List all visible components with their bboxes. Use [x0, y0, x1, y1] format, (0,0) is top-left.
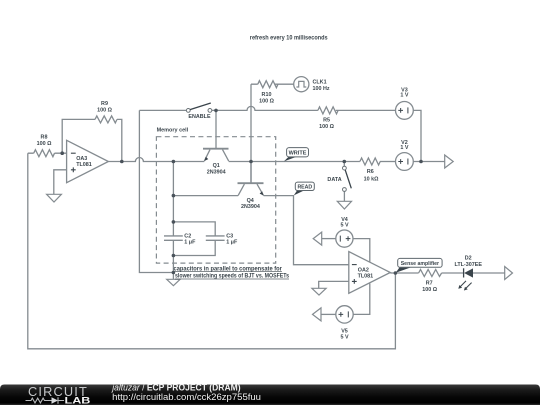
junction OA2 output node [394, 271, 398, 275]
svg-text:R5: R5 [323, 118, 330, 124]
resistor R6 [360, 158, 380, 183]
svg-text:2N3904: 2N3904 [207, 169, 226, 175]
svg-text:10 kΩ: 10 kΩ [364, 177, 379, 183]
svg-text:100 Ω: 100 Ω [422, 287, 437, 293]
wire: OA2 plus to ground [319, 281, 349, 288]
terminal arrow (bus output) [445, 155, 454, 168]
transistor Q1 [203, 110, 229, 175]
ground (bitline caps) [167, 279, 180, 285]
resistor R7 [419, 270, 442, 294]
terminal arrow (LED output) [505, 267, 513, 280]
LED D2 [454, 255, 482, 290]
capacitor C3 [206, 234, 238, 246]
wire: V5 right to OA2 bottom power pin [353, 283, 370, 314]
svg-text:100 Hz: 100 Hz [313, 86, 330, 92]
junction ground wire on bitline rail [172, 271, 176, 275]
svg-text:TL081: TL081 [358, 273, 374, 279]
ground (OA2 +) [312, 288, 326, 295]
clock source CLK1 [294, 77, 330, 93]
svg-text:Sense amplifier: Sense amplifier [401, 261, 439, 267]
svg-text:R9: R9 [101, 101, 108, 107]
ground (OA3 +) [47, 194, 62, 202]
terminal arrow (V4 input) [313, 232, 322, 245]
wire: Q4 right to READ corner down to OA2 minus [264, 196, 349, 265]
wire: main bus Q1 collector to R6 left [229, 161, 360, 163]
wire: main bus OA3 output to Q1 emitter (hop at x=139.4) [108, 158, 204, 162]
switch ENABLE [186, 103, 211, 120]
svg-text:1 V: 1 V [400, 145, 408, 151]
svg-text:100 Ω: 100 Ω [37, 141, 52, 147]
svg-text:LTL-307EE: LTL-307EE [454, 262, 482, 268]
svg-text:capacitors in parallel to comp: capacitors in parallel to compensate for [174, 265, 283, 272]
svg-text:1 μF: 1 μF [226, 240, 238, 246]
wire: switch to R5 (hop at x=251) [212, 106, 318, 110]
svg-text:Memory cell: Memory cell [157, 128, 189, 134]
resistor R9 [95, 101, 117, 123]
svg-text:R7: R7 [426, 281, 433, 287]
junction C3 top on bitline rail [172, 220, 176, 224]
svg-text:1 V: 1 V [400, 93, 408, 99]
junction V3/V2 output node [419, 160, 423, 164]
wire: C3 parallel loop [173, 222, 215, 256]
annotation: capacitors note [174, 265, 290, 279]
wire: R9 feedback loop [62, 119, 122, 161]
wire: ENABLE row y=110.4 from corner to switch [139, 109, 186, 111]
junction C3 bottom on bitline rail [172, 254, 176, 258]
junction ENABLE switch / Q1 base [214, 109, 218, 113]
wire: R10 rail x=251 from R10 corner through bus to Q4 base [250, 84, 252, 183]
svg-text:R10: R10 [262, 92, 272, 98]
resistor R10 [258, 81, 278, 105]
svg-text:5 V: 5 V [340, 334, 348, 340]
switch DATA [327, 166, 351, 191]
wire: Q4 left to rail [173, 195, 238, 197]
svg-text:TL081: TL081 [76, 162, 92, 168]
svg-text:100 Ω: 100 Ω [97, 108, 112, 114]
flag READ [294, 182, 315, 195]
wire: R10 corner to CLK1 [251, 83, 294, 85]
junction DATA switch on main bus [343, 160, 347, 164]
transistor Q4 [238, 162, 264, 210]
footer bar [0, 382, 540, 405]
svg-text:R6: R6 [367, 169, 374, 175]
junction Q4 emitter row on bitline rail [172, 194, 176, 198]
wire: OA2 output row [390, 272, 504, 274]
svg-text:refresh every 10 milliseconds: refresh every 10 milliseconds [250, 34, 328, 41]
op-amp OA3 [67, 140, 109, 182]
terminal arrow (V5 input) [313, 308, 322, 321]
wire: R6 right to V2 left [380, 161, 396, 163]
capacitor C2 [164, 234, 196, 246]
wire: bitline rail x=173.4 (interrupted by C2) [172, 162, 174, 280]
wire: V2 right to output arrow [413, 161, 444, 163]
svg-text:D2: D2 [465, 255, 472, 261]
wire: DATA switch to ground [343, 191, 345, 201]
svg-text:LAB: LAB [65, 395, 91, 405]
svg-text:R8: R8 [41, 134, 48, 140]
voltage source V5 [336, 306, 353, 341]
wire: OA3 plus to ground [54, 170, 67, 195]
resistor R8 [34, 134, 55, 156]
svg-text:http://circuitlab.com/cck26zp7: http://circuitlab.com/cck26zp755fuu [112, 391, 261, 402]
resistor R5 [318, 107, 338, 130]
svg-text:100 Ω: 100 Ω [259, 99, 274, 105]
wire: R5 right to V3 left [336, 109, 396, 111]
wire: left rail and bottom feedback loop [28, 153, 396, 349]
svg-text:CLK1: CLK1 [313, 80, 327, 86]
memory cell dashed box [156, 128, 275, 264]
voltage source V3 [396, 88, 414, 120]
svg-text:READ: READ [297, 185, 312, 191]
svg-text:5 V: 5 V [340, 222, 348, 228]
svg-text:100 Ω: 100 Ω [319, 124, 334, 130]
junction OA3 inverting input node [60, 151, 64, 155]
flag WRITE [284, 148, 309, 162]
svg-text:DATA: DATA [327, 177, 341, 183]
wire: V4 right to OA2 top power pin [353, 239, 370, 263]
voltage source V2 [396, 140, 414, 170]
wire: OA2 minus stub [343, 162, 345, 167]
junction R10/Q4 base rail on main bus [249, 160, 253, 164]
wire: V5 left terminal to circle [321, 313, 336, 315]
flag Sense amplifier [396, 258, 442, 272]
svg-text:1 μF: 1 μF [184, 240, 196, 246]
wire: ENABLE rail left vertical x=139.4 down to ground wire [139, 110, 173, 272]
wire: V4 left terminal to circle [322, 238, 336, 240]
svg-text:Q1: Q1 [213, 163, 220, 169]
voltage source V4 [336, 217, 353, 247]
svg-text:ENABLE: ENABLE [188, 114, 211, 120]
wire: R8 row [28, 152, 67, 154]
wire: V3 right, down to main bus junction [413, 110, 421, 161]
junction OA3 output / R9 feedback [120, 160, 124, 164]
svg-text:WRITE: WRITE [289, 150, 307, 156]
junction bitline rail on main bus [172, 160, 176, 164]
op-amp OA2 [349, 252, 391, 294]
ground (DATA switch) [337, 201, 351, 209]
annotation: refresh note [250, 34, 328, 41]
svg-text:slower switching speeds of BJT: slower switching speeds of BJT vs. MOSFE… [175, 273, 289, 280]
svg-text:2N3904: 2N3904 [241, 204, 260, 210]
